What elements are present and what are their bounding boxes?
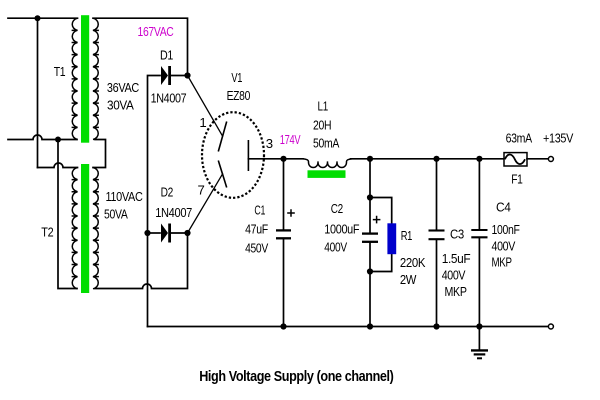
node top input junction [35,15,41,21]
svg-text:MKP: MKP [445,284,468,299]
node D1 cathode / plate 1 [184,72,190,78]
svg-text:7: 7 [198,182,205,197]
wire mid input with hop over vertical [8,135,77,139]
wire C1 branch [283,159,285,327]
svg-text:174V: 174V [280,132,301,147]
svg-text:2W: 2W [400,272,417,287]
svg-text:3: 3 [266,136,273,151]
svg-text:C1: C1 [254,203,265,218]
inductor L1 [303,159,352,168]
node D2 anode [144,230,150,236]
capacitor C1 polarity [287,209,295,217]
svg-text:20H: 20H [313,118,331,133]
node C3 top [433,156,439,162]
wire B+ line after choke [351,158,504,160]
inductor L1 core bar [308,170,346,178]
wire fuse to terminal [527,158,548,160]
wire bottom bus [148,326,548,328]
wire C4 branch [478,159,480,327]
svg-text:+135V: +135V [543,131,573,146]
wire ground stem [478,327,480,350]
transformer T2 primary winding [72,168,78,289]
node R1 bottom tap [367,268,373,274]
wire D2 cathode to node [171,232,188,234]
svg-text:47uF: 47uF [245,222,268,237]
node dots [35,15,483,329]
svg-text:R1: R1 [401,228,412,243]
wire R1 top tap [370,198,392,224]
transformer T1 secondary winding [93,18,99,139]
svg-text:T2: T2 [41,225,53,240]
capacitor C2 polarity [373,216,381,224]
transformer T2 core [81,164,89,293]
wire pin3 B+ line left [248,158,303,160]
svg-text:MKP: MKP [492,254,513,269]
capacitor C1 [276,230,291,238]
wire T1 secondary top to corner [93,18,188,73]
node ground junction [476,323,482,329]
tube V1 envelope [202,112,264,198]
svg-text:400V: 400V [492,239,516,254]
svg-text:450V: 450V [245,241,268,256]
svg-text:D2: D2 [161,184,173,199]
svg-text:100nF: 100nF [492,222,520,237]
tube V1 upper plate [218,122,226,152]
wire vertical x58 to T2 primary bottom [58,140,77,289]
node C4 top [476,156,482,162]
wire C3 branch [436,159,438,327]
svg-text:1N4007: 1N4007 [151,91,187,106]
svg-text:167VAC: 167VAC [138,24,175,39]
resistor R1 [387,223,396,254]
svg-text:1.5uF: 1.5uF [442,251,471,266]
svg-text:C3: C3 [450,227,464,242]
wire D1 anode down to D2 anode [148,76,161,234]
wire anode bus down to ground bus [147,233,149,327]
node R1 top tap [367,194,373,200]
wire top input [8,17,78,19]
tube V1 lower plate [218,161,226,188]
svg-text:400V: 400V [442,267,466,282]
terminal +135V [548,157,553,162]
transformer T1 primary winding [72,18,78,139]
wire R1 bottom tap [370,254,392,271]
svg-text:L1: L1 [318,99,328,114]
svg-text:High Voltage Supply (one chann: High Voltage Supply (one channel) [199,369,394,385]
svg-text:220K: 220K [400,255,426,270]
fuse F1 [504,153,527,166]
svg-text:36VAC: 36VAC [107,80,140,95]
node C3 bottom [433,323,439,329]
wire D1 cathode to node [171,75,188,77]
capacitor C2 [362,234,378,242]
svg-text:C2: C2 [331,201,343,216]
ground [471,350,488,358]
svg-text:110VAC: 110VAC [106,189,144,204]
diode D1 [161,66,171,85]
node C2 top [367,156,373,162]
svg-text:F1: F1 [511,171,522,186]
svg-text:1000uF: 1000uF [324,222,359,237]
svg-text:50VA: 50VA [104,207,128,222]
svg-text:T1: T1 [54,64,66,79]
wire T2 primary top jog with hop [38,163,78,168]
svg-text:63mA: 63mA [506,131,533,146]
diode D2 [161,224,171,243]
svg-text:400V: 400V [324,240,347,255]
wire T1 secondary bottom jog to T2 secondary top [93,140,106,168]
svg-text:30VA: 30VA [107,97,134,112]
node D2 cathode / plate 7 [184,230,190,236]
svg-text:EZ80: EZ80 [227,88,250,103]
tube V1 cathode [247,140,249,171]
node C1 bottom [280,323,286,329]
transformer T1 core [81,15,89,143]
wire pin1 diagonal [188,76,223,137]
node C2 bottom [367,323,373,329]
capacitor C3 [429,231,445,240]
node mid input junction [55,137,61,143]
terminal 0V [548,324,553,329]
svg-text:V1: V1 [231,70,242,85]
node C1 top [280,156,286,162]
svg-text:D1: D1 [160,48,173,63]
svg-text:C4: C4 [496,199,511,214]
svg-text:50mA: 50mA [313,136,339,151]
capacitor C4 [471,230,487,237]
wire D2 anode stub [148,232,161,234]
wire pin7 diagonal [188,174,223,233]
wire T2 secondary bottom with hop to corner up [95,233,188,289]
wire C2 branch [369,159,371,327]
wire vertical from top junction to T2 primary top [37,18,39,167]
svg-text:1: 1 [199,115,206,130]
transformer T2 secondary winding [93,168,99,289]
svg-text:1N4007: 1N4007 [155,205,192,220]
